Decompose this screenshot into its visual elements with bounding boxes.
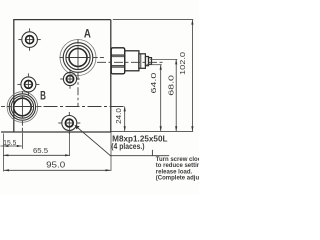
- tick on underline: [151, 150, 153, 156]
- port A: [60, 40, 96, 76]
- port A centerline vertical: [77, 40, 79, 107]
- svg-text:95.0: 95.0: [46, 161, 66, 170]
- plate body outline (top view): [1, 20, 111, 132]
- top extension line: [113, 19, 193, 21]
- svg-text:B: B: [40, 89, 46, 103]
- M8 note underline: [110, 155, 169, 157]
- svg-text:(Complete adjustme: (Complete adjustme: [156, 176, 199, 182]
- svg-text:102.0: 102.0: [178, 52, 187, 75]
- port B centerline vertical (extends to 15.5 dim): [21, 91, 23, 149]
- dim 65.5: [3, 154, 70, 156]
- dim 64.0: [147, 64, 162, 66]
- port A centerline horizontal: [60, 57, 105, 59]
- right note text: [156, 157, 215, 182]
- extension from bottom-right bolt hole: [69, 128, 71, 156]
- svg-text:24.0: 24.0: [114, 108, 123, 124]
- port B: [7, 92, 38, 123]
- bolt hole top-left: [18, 28, 40, 50]
- dim 68.0: [150, 58, 177, 60]
- svg-text:to reduce setting an: to reduce setting an: [156, 163, 199, 169]
- svg-text:64.0: 64.0: [149, 73, 158, 94]
- bolt hole mid-left: [17, 73, 39, 95]
- bolt hole center: [60, 69, 80, 89]
- valve centerline: [97, 61, 164, 63]
- end cap: [149, 58, 152, 65]
- cartridge valve locknut: [139, 54, 146, 69]
- dim 24.0: [124, 106, 126, 131]
- bolt hole bottom-right: [58, 112, 80, 134]
- right edge extension down: [110, 133, 112, 171]
- dim 95.0: [4, 169, 111, 171]
- svg-text:65.5: 65.5: [33, 146, 48, 155]
- svg-text:A: A: [84, 26, 91, 40]
- cartridge valve body cylinder: [125, 51, 139, 71]
- svg-text:68.0: 68.0: [167, 75, 176, 96]
- dim 102.0: [191, 20, 193, 132]
- bottom extension line: [111, 130, 193, 132]
- port B centerline horizontal (also 24.0 extension): [1, 106, 126, 108]
- M8 note leader with arrow: [75, 126, 110, 156]
- adjustment screw: [146, 57, 149, 66]
- svg-text:15.5: 15.5: [3, 138, 16, 147]
- cartridge valve side view: hex nut: [111, 48, 125, 74]
- svg-text:(4 places.): (4 places.): [111, 142, 144, 151]
- dim 15.5: [1, 145, 22, 147]
- svg-text:Turn screw clockwis: Turn screw clockwis: [156, 157, 199, 163]
- left extension line for dims: [2, 134, 4, 172]
- svg-text:release load.: release load.: [156, 169, 193, 175]
